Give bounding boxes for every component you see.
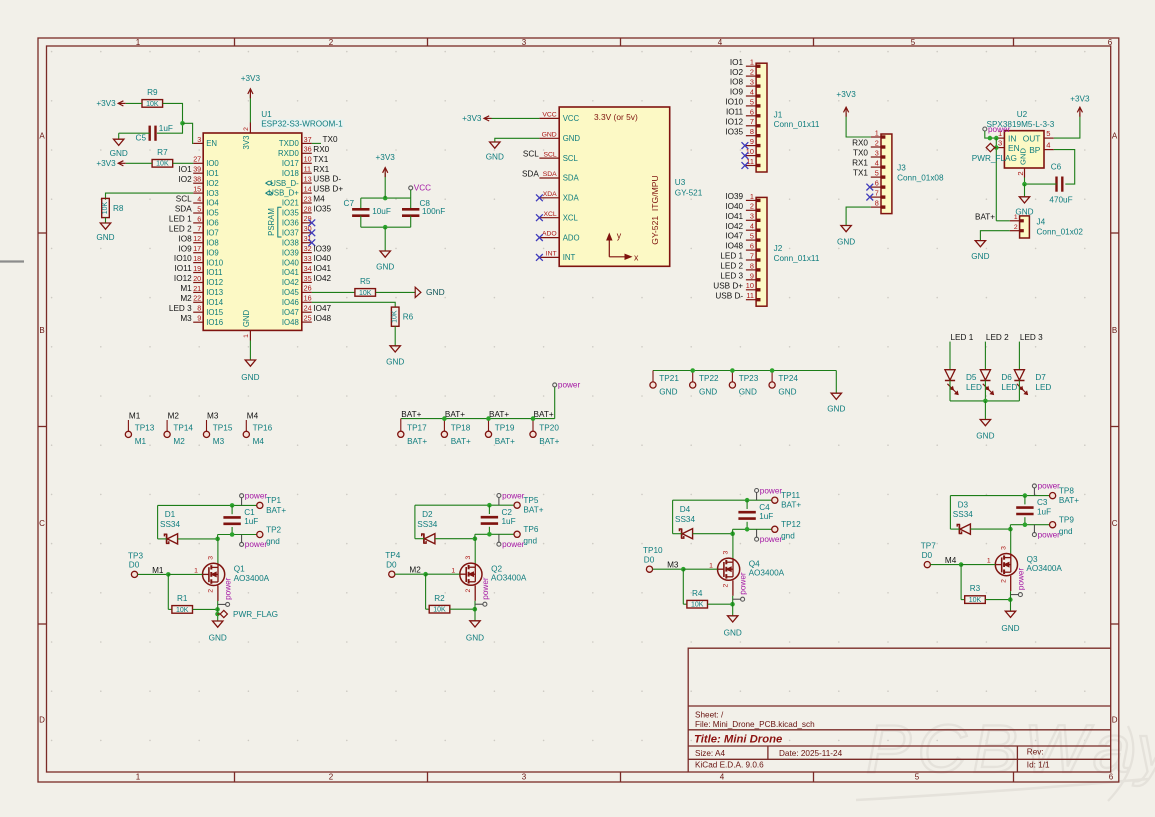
svg-text:2: 2 <box>208 589 215 593</box>
svg-text:10uF: 10uF <box>372 207 391 216</box>
svg-text:5: 5 <box>750 232 754 241</box>
svg-text:USB D-: USB D- <box>313 175 341 184</box>
svg-text:4: 4 <box>750 87 754 96</box>
svg-text:TP22: TP22 <box>699 374 719 383</box>
svg-text:M3: M3 <box>213 437 225 446</box>
wire <box>157 103 183 133</box>
svg-text:PWR_FLAG: PWR_FLAG <box>972 154 1017 163</box>
svg-text:5: 5 <box>750 97 754 106</box>
svg-text:2: 2 <box>723 583 730 587</box>
test point TP1 <box>257 496 287 515</box>
svg-text:power: power <box>502 540 525 549</box>
svg-text:KiCad E.D.A. 9.0.6: KiCad E.D.A. 9.0.6 <box>695 761 764 770</box>
pin 34 IO41 (U1 right) <box>282 264 312 277</box>
svg-text:GND: GND <box>241 373 259 382</box>
junction <box>423 572 428 577</box>
wire <box>673 499 772 501</box>
junction <box>180 121 185 126</box>
wire <box>732 596 734 616</box>
wire <box>425 574 427 609</box>
resistor R7 <box>152 148 173 168</box>
wire <box>732 529 734 533</box>
pin 2 (J2) <box>746 202 761 212</box>
resistor R6 <box>391 307 413 326</box>
test point TP21 <box>650 371 679 397</box>
svg-text:100nF: 100nF <box>422 207 445 216</box>
svg-text:TP18: TP18 <box>451 424 471 433</box>
svg-text:PSRAM: PSRAM <box>267 208 276 236</box>
svg-text:C4: C4 <box>759 503 770 512</box>
pin 9 (J2) <box>746 271 761 281</box>
wire <box>193 608 218 610</box>
wire <box>980 231 1009 241</box>
test point TP22 <box>690 371 719 397</box>
wire <box>1010 591 1012 611</box>
svg-text:ADO: ADO <box>563 233 580 242</box>
svg-text:IO12: IO12 <box>206 278 223 287</box>
svg-text:IO8: IO8 <box>178 234 192 243</box>
svg-text:M2: M2 <box>409 566 421 575</box>
svg-text:GND: GND <box>242 309 251 327</box>
wire <box>961 564 995 566</box>
transistor Q2 AO3400A <box>451 555 527 592</box>
wire <box>475 533 514 535</box>
wire <box>653 370 836 372</box>
wire <box>693 533 733 535</box>
pin 31 IO38 (U1 right) <box>282 234 312 247</box>
led D5 <box>945 370 982 395</box>
pin 1 (J1) <box>746 58 761 68</box>
svg-text:7: 7 <box>750 117 754 126</box>
svg-text:LED 1: LED 1 <box>169 215 192 224</box>
wire <box>312 302 395 307</box>
svg-text:BAT+: BAT+ <box>407 437 427 446</box>
svg-text:LED 3: LED 3 <box>169 304 192 313</box>
svg-text:SS34: SS34 <box>953 510 973 519</box>
svg-text:SCL: SCL <box>543 151 556 158</box>
svg-text:AO3400A: AO3400A <box>749 569 785 578</box>
svg-text:2: 2 <box>750 68 754 77</box>
pin 11 (J2) <box>746 291 761 301</box>
svg-text:10K: 10K <box>146 101 159 108</box>
svg-text:power: power <box>988 125 1011 134</box>
no-connect (J1 pin 11) <box>742 162 749 169</box>
svg-text:8: 8 <box>875 199 879 208</box>
svg-text:+3V3: +3V3 <box>462 114 482 123</box>
svg-text:1: 1 <box>136 772 141 781</box>
junction <box>215 537 220 542</box>
svg-text:SS34: SS34 <box>417 520 437 529</box>
wire <box>1018 342 1020 370</box>
power label power (C2 bottom) <box>497 540 525 549</box>
pin 10 (J2) <box>746 281 761 291</box>
junction <box>745 527 750 532</box>
svg-text:4: 4 <box>197 194 201 203</box>
pin INT (U3) <box>539 251 575 263</box>
pin 2 (J4) <box>1010 224 1024 232</box>
svg-text:22: 22 <box>193 294 201 303</box>
test point TP7 <box>921 542 936 568</box>
pin 29 IO36 (U1 right) <box>282 214 312 227</box>
wire <box>708 603 733 605</box>
wire <box>217 539 219 564</box>
svg-text:3: 3 <box>208 556 215 560</box>
bracket PSRAM (IO35-IO37) <box>267 207 282 237</box>
svg-text:Conn_01x11: Conn_01x11 <box>774 120 820 129</box>
svg-text:IO41: IO41 <box>313 264 331 273</box>
svg-text:A: A <box>1112 131 1118 140</box>
svg-text:M3: M3 <box>207 412 219 421</box>
svg-text:2: 2 <box>329 38 334 47</box>
svg-text:power: power <box>1038 482 1061 491</box>
svg-text:IO48: IO48 <box>725 242 743 251</box>
junction <box>215 612 220 617</box>
power label power (Q4) <box>739 572 748 601</box>
svg-text:M2: M2 <box>168 412 180 421</box>
svg-text:SCL: SCL <box>523 150 539 159</box>
pin 8 (J2) <box>746 261 761 271</box>
wire <box>106 193 194 200</box>
power +3V3 (above U1) <box>241 74 261 98</box>
wire <box>985 131 997 138</box>
wire <box>653 568 684 570</box>
wire <box>178 538 218 540</box>
wire <box>119 132 150 134</box>
pin 2 3V3 (U1 top) <box>242 123 251 150</box>
power label power (C3 bottom) <box>1032 530 1060 539</box>
svg-text:15: 15 <box>193 185 201 194</box>
wire <box>218 534 257 536</box>
svg-text:AO3400A: AO3400A <box>234 574 270 583</box>
capacitor C7 10uF <box>344 198 391 216</box>
svg-text:37: 37 <box>304 135 312 144</box>
svg-text:1: 1 <box>750 192 754 201</box>
svg-text:7: 7 <box>197 224 201 233</box>
svg-text:GND: GND <box>827 405 845 414</box>
pin 10 IO17 (U1 right) <box>282 155 312 168</box>
svg-text:TX0: TX0 <box>323 135 338 144</box>
pin 18 IO10 (U1 left) <box>193 254 224 267</box>
svg-text:+3V3: +3V3 <box>96 99 116 108</box>
svg-text:IO12: IO12 <box>174 274 192 283</box>
svg-text:IO40: IO40 <box>313 254 331 263</box>
svg-text:R5: R5 <box>360 277 371 286</box>
ground (C5) <box>110 139 128 158</box>
svg-text:gnd: gnd <box>1059 527 1073 536</box>
svg-text:14: 14 <box>304 184 312 193</box>
ground (J3) <box>837 226 855 247</box>
svg-text:VCC: VCC <box>542 112 556 119</box>
svg-text:PWR_FLAG: PWR_FLAG <box>233 610 278 619</box>
test point TP24 <box>769 371 798 397</box>
svg-text:16: 16 <box>304 294 312 303</box>
capacitor C5 1uF <box>136 124 173 143</box>
wire <box>415 538 424 540</box>
svg-text:USB D+: USB D+ <box>313 185 343 194</box>
svg-text:J4: J4 <box>1037 217 1046 226</box>
connector J1 Conn_01x11 body <box>756 63 767 172</box>
junction <box>745 498 750 503</box>
svg-text:U3: U3 <box>675 178 686 187</box>
svg-text:C: C <box>1112 519 1118 528</box>
pin 5 (J2) <box>746 232 761 242</box>
wire <box>384 173 386 198</box>
resistor R2 <box>429 594 450 614</box>
svg-text:TP11: TP11 <box>781 491 800 500</box>
power label power (C4 bottom) <box>755 535 783 544</box>
svg-text:IO11: IO11 <box>726 108 744 117</box>
svg-text:AO3400A: AO3400A <box>1026 564 1062 573</box>
svg-text:IO45: IO45 <box>282 288 300 297</box>
svg-text:BAT+: BAT+ <box>401 410 421 419</box>
pin 6 (J2) <box>746 242 761 252</box>
svg-text:10K: 10K <box>392 310 399 323</box>
svg-text:24: 24 <box>304 304 312 313</box>
junction <box>230 532 235 537</box>
svg-text:D0: D0 <box>644 555 655 564</box>
svg-text:18: 18 <box>193 254 201 263</box>
wire <box>682 569 684 604</box>
wire <box>846 207 871 225</box>
junction <box>770 368 775 373</box>
svg-text:2: 2 <box>243 127 250 131</box>
pin 4 (J1) <box>746 87 761 97</box>
svg-text:Rev:: Rev: <box>1027 748 1044 757</box>
svg-text:IO40: IO40 <box>725 202 743 211</box>
svg-text:TP17: TP17 <box>407 424 427 433</box>
svg-text:1uF: 1uF <box>502 517 516 526</box>
svg-text:IO13: IO13 <box>206 288 223 297</box>
wire <box>950 528 959 530</box>
pin 4 IO4 (U1 left) <box>193 194 219 207</box>
pin 1 IN (U2) <box>996 129 1016 143</box>
svg-text:power: power <box>502 491 525 500</box>
wire <box>474 601 476 621</box>
svg-text:IO10: IO10 <box>174 254 192 263</box>
pin 16 IO46 (U1 right) <box>282 294 312 307</box>
resistor R9 <box>142 88 163 108</box>
svg-text:power: power <box>760 486 783 495</box>
test point TP10 <box>643 546 663 572</box>
svg-text:19: 19 <box>193 264 201 273</box>
ground (Q3) <box>1001 611 1019 633</box>
svg-text:1: 1 <box>243 334 250 338</box>
wire <box>1018 381 1020 401</box>
svg-text:BAT+: BAT+ <box>495 437 515 446</box>
svg-text:IO35: IO35 <box>725 127 743 136</box>
junction <box>730 531 735 536</box>
pin 6 (J3) <box>871 179 886 189</box>
svg-text:1: 1 <box>987 558 991 565</box>
svg-text:TP15: TP15 <box>213 424 233 433</box>
wire <box>249 341 251 361</box>
wire <box>361 226 411 228</box>
wire <box>985 599 1010 601</box>
pin 2 (J3) <box>871 138 886 148</box>
svg-text:USB D+: USB D+ <box>713 281 743 290</box>
svg-text:20: 20 <box>193 274 201 283</box>
svg-text:IO5: IO5 <box>206 209 219 218</box>
no-connect (J1 pin 10) <box>742 152 749 159</box>
wire <box>930 564 961 566</box>
junction <box>215 607 220 612</box>
junction <box>994 136 999 141</box>
svg-text:IO21: IO21 <box>282 199 299 208</box>
svg-text:USB_D+: USB_D+ <box>268 189 299 198</box>
svg-text:11: 11 <box>304 165 311 174</box>
svg-text:RX1: RX1 <box>313 165 329 174</box>
svg-text:10: 10 <box>746 281 754 290</box>
svg-text:LED 2: LED 2 <box>169 224 192 233</box>
svg-text:IO41: IO41 <box>282 268 299 277</box>
svg-text:17: 17 <box>193 244 201 253</box>
junction <box>994 145 999 150</box>
svg-text:6: 6 <box>750 242 754 251</box>
svg-text:IO48: IO48 <box>313 314 331 323</box>
svg-text:RX0: RX0 <box>852 139 868 148</box>
wire <box>950 495 1049 497</box>
wire <box>394 326 396 346</box>
wire <box>173 162 194 164</box>
svg-text:File: Mini_Drone_PCB.kicad_sch: File: Mini_Drone_PCB.kicad_sch <box>695 720 815 729</box>
svg-text:D0: D0 <box>129 561 140 570</box>
svg-text:TP24: TP24 <box>778 374 798 383</box>
pin 37 TXD0 (U1 right) <box>279 135 312 148</box>
svg-text:5: 5 <box>1046 129 1050 138</box>
test point TP9 <box>1050 516 1075 536</box>
svg-text:3: 3 <box>723 550 730 554</box>
svg-text:3: 3 <box>522 38 527 47</box>
wire <box>395 573 426 575</box>
svg-text:1: 1 <box>194 568 198 575</box>
svg-text:3: 3 <box>465 555 472 559</box>
svg-text:VCC: VCC <box>414 183 431 192</box>
svg-text:4: 4 <box>718 38 723 47</box>
capacitor C6 470uF <box>1049 163 1072 205</box>
junction <box>1008 597 1013 602</box>
svg-text:IO9: IO9 <box>178 244 192 253</box>
svg-text:2: 2 <box>465 588 472 592</box>
svg-text:U2: U2 <box>1017 110 1028 119</box>
pin 7 (J1) <box>746 117 761 127</box>
svg-text:IO1: IO1 <box>178 165 192 174</box>
svg-text:3.3V (or 5v): 3.3V (or 5v) <box>594 112 638 122</box>
svg-text:M4: M4 <box>247 412 259 421</box>
pin 30 IO37 (U1 right) <box>282 224 312 237</box>
svg-text:IO9: IO9 <box>206 248 219 257</box>
wire <box>1024 184 1026 197</box>
svg-text:SS34: SS34 <box>160 520 180 529</box>
svg-text:U1: U1 <box>261 110 272 119</box>
svg-text:IO42: IO42 <box>725 222 743 231</box>
no-connect (U3 XDA) <box>536 194 543 201</box>
pin XCL (U3) <box>539 211 578 223</box>
svg-text:5: 5 <box>915 772 920 781</box>
power +3V3 (R7) <box>96 159 125 168</box>
svg-text:BAT+: BAT+ <box>539 437 559 446</box>
svg-text:11: 11 <box>746 291 754 300</box>
svg-text:IO36: IO36 <box>282 219 299 228</box>
resistor R3 <box>965 584 986 604</box>
svg-text:GND: GND <box>659 388 677 397</box>
svg-text:26: 26 <box>304 284 312 293</box>
svg-text:x: x <box>634 253 639 263</box>
test point TP20 <box>530 419 560 446</box>
junction <box>730 368 735 373</box>
transistor Q1 AO3400A <box>194 556 270 593</box>
svg-text:M4: M4 <box>313 195 325 204</box>
svg-text:4: 4 <box>750 222 754 231</box>
svg-text:USB_D-: USB_D- <box>270 179 299 188</box>
ic U2 SPX3819M5-L-3-3 body <box>987 110 1055 168</box>
svg-text:21: 21 <box>193 284 201 293</box>
svg-text:1: 1 <box>875 128 879 137</box>
svg-text:GND: GND <box>542 131 557 138</box>
pin 8 (J3) <box>871 199 886 209</box>
svg-text:power: power <box>1017 568 1026 591</box>
wire <box>1010 529 1012 554</box>
svg-text:TP1: TP1 <box>266 496 281 505</box>
svg-text:TX0: TX0 <box>853 149 868 158</box>
svg-text:gnd: gnd <box>266 537 280 546</box>
svg-text:IO16: IO16 <box>206 318 223 327</box>
svg-text:IO8: IO8 <box>730 78 744 87</box>
resistor R1 <box>172 594 193 614</box>
wire <box>1025 183 1057 185</box>
wire <box>732 580 734 596</box>
pin 27 IO0 (U1 left) <box>193 155 219 168</box>
no-connect (J1 pin 9) <box>742 142 749 149</box>
pin 32 IO39 (U1 right) <box>282 244 312 257</box>
power label power (Q1) <box>224 577 233 606</box>
global label GND (R5) <box>415 287 444 297</box>
test point TP18 <box>441 419 471 446</box>
pin 6 IO6 (U1 left) <box>193 214 219 227</box>
svg-text:Size: A4: Size: A4 <box>695 749 725 758</box>
wire <box>949 342 951 370</box>
svg-text:1uF: 1uF <box>159 124 173 133</box>
pin 22 IO14 (U1 left) <box>193 294 224 307</box>
svg-text:IO40: IO40 <box>282 258 300 267</box>
wire <box>376 291 415 293</box>
svg-text:TP7: TP7 <box>921 542 936 551</box>
svg-text:10K: 10K <box>691 602 704 609</box>
svg-text:IO37: IO37 <box>282 229 299 238</box>
junction <box>383 196 388 201</box>
svg-text:R1: R1 <box>177 594 188 603</box>
wire <box>426 573 460 575</box>
svg-text:INT: INT <box>563 253 576 262</box>
svg-text:C2: C2 <box>502 508 513 517</box>
svg-text:LED 1: LED 1 <box>720 252 743 261</box>
wire <box>415 504 514 506</box>
ground (Q2) <box>466 621 484 643</box>
ground (Q1) <box>209 621 227 643</box>
svg-text:OUT: OUT <box>1023 133 1041 143</box>
power label power (C2 top) <box>497 491 525 500</box>
svg-text:2: 2 <box>1014 224 1018 231</box>
svg-text:TP6: TP6 <box>523 525 538 534</box>
svg-text:power: power <box>245 492 268 501</box>
pin 25 IO48 (U1 right) <box>282 314 312 327</box>
junction <box>166 572 171 577</box>
wire <box>401 418 555 420</box>
svg-text:D0: D0 <box>922 551 933 560</box>
svg-text:TXD0: TXD0 <box>279 139 300 148</box>
svg-text:Id: 1/1: Id: 1/1 <box>1027 761 1050 770</box>
ground (LEDs) <box>976 420 994 441</box>
wire <box>846 113 871 137</box>
